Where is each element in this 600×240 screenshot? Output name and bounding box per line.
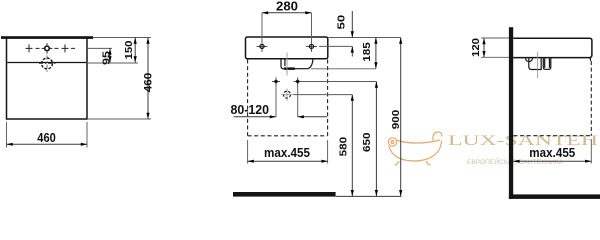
- svg-text:120: 120: [470, 38, 482, 57]
- svg-text:900: 900: [390, 110, 402, 130]
- svg-text:80-120: 80-120: [231, 102, 270, 117]
- svg-text:650: 650: [361, 132, 373, 152]
- svg-text:460: 460: [142, 73, 154, 93]
- svg-text:95: 95: [101, 51, 113, 65]
- svg-text:280: 280: [276, 0, 298, 14]
- svg-text:max.455: max.455: [529, 145, 575, 160]
- svg-text:185: 185: [361, 42, 373, 62]
- svg-text:150: 150: [123, 40, 135, 59]
- svg-text:460: 460: [37, 130, 56, 145]
- svg-text:50: 50: [336, 15, 348, 30]
- svg-text:max.455: max.455: [264, 145, 310, 160]
- svg-text:580: 580: [337, 137, 349, 157]
